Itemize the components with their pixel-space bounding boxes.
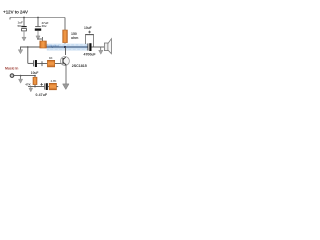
- ground speaker: [99, 50, 103, 54]
- ground chain: [29, 88, 33, 92]
- capacitor C5 plus mark: [88, 31, 91, 34]
- ground emitter: [63, 84, 69, 90]
- capacitor C4 thick plate: [46, 83, 48, 90]
- label R5 value: [51, 79, 57, 83]
- svg-text:150: 150: [71, 32, 77, 36]
- selection highlight collector wire: [47, 44, 88, 51]
- capacitor C1 bottom lead: [23, 31, 25, 38]
- resistor R5 right pin: [57, 86, 59, 88]
- svg-text:10uF: 10uF: [84, 26, 92, 30]
- node junction R4 bottom: [34, 86, 36, 88]
- wire rail start tick: [9, 18, 11, 20]
- resistor R3 body: [47, 60, 54, 67]
- selection pattern dashes: [48, 44, 88, 46]
- svg-text:Music In: Music In: [5, 66, 18, 70]
- label C5 value: [84, 52, 97, 56]
- capacitor C1 hollow plate: [22, 29, 27, 31]
- transistor Q1 emitter diag: [63, 62, 66, 65]
- svg-text:4.7K: 4.7K: [51, 79, 57, 83]
- resistor R4 body: [33, 77, 37, 84]
- capacitor C5 thick plate: [89, 43, 91, 51]
- svg-text:10uF: 10uF: [31, 71, 39, 75]
- node junction rail-C2: [37, 17, 39, 19]
- resistor R4 top lead: [34, 76, 36, 78]
- svg-text:40v: 40v: [42, 24, 47, 28]
- resistor R2 top stub: [42, 37, 44, 41]
- svg-text:50v: 50v: [18, 24, 23, 28]
- wire power rail: [10, 17, 65, 19]
- wire base row: [37, 62, 61, 64]
- svg-text:ohm: ohm: [71, 36, 78, 40]
- label C1 value: [18, 21, 24, 28]
- transistor Q1 collector diag: [63, 57, 66, 59]
- node plus tick base row: [41, 61, 43, 66]
- capacitor C4 thin plate: [44, 83, 46, 89]
- capacitor C3 thick plate: [35, 60, 37, 67]
- ground left wire: [18, 50, 23, 54]
- wire input row: [14, 75, 35, 77]
- capacitor C2 thick plate: [35, 28, 41, 30]
- svg-text:1K: 1K: [49, 56, 53, 60]
- node junction rail-C1: [23, 17, 25, 19]
- wire cap to speaker: [92, 46, 105, 48]
- label R3 value: [49, 56, 53, 60]
- wire collector node: [47, 46, 88, 48]
- capacitor C3 thin plate: [33, 60, 35, 66]
- resistor R1 body: [63, 30, 68, 43]
- capacitor C4 plus mark: [40, 83, 43, 86]
- capacitor C2 lead: [37, 18, 39, 27]
- capacitor C2 top plate: [35, 26, 41, 28]
- ground C1: [22, 37, 26, 41]
- resistor R1 bottom lead: [64, 43, 66, 47]
- transistor Q1 circle: [60, 57, 69, 66]
- selection artifact marks: [47, 44, 60, 48]
- capacitor C5 thin plate: [87, 43, 89, 50]
- node junction input riser: [27, 46, 29, 48]
- label C4 value: [36, 93, 48, 97]
- svg-text:+12V to 24V: +12V to 24V: [3, 9, 29, 14]
- capacitor C2 bottom lead: [37, 31, 39, 36]
- label C5 top: [84, 26, 92, 30]
- transistor Q1 collector lead: [65, 47, 67, 55]
- wire input riser: [27, 47, 29, 63]
- capacitor C3 left lead: [28, 62, 33, 64]
- resistor R1 top lead: [64, 18, 66, 31]
- ground input stub: [20, 76, 22, 80]
- label Q1: [72, 64, 87, 68]
- capacitor C5 hollow box: [85, 35, 94, 47]
- label C3 value: [31, 71, 39, 75]
- label Music In: [5, 66, 18, 70]
- resistor R2 body: [40, 41, 47, 48]
- svg-text:10K: 10K: [37, 37, 42, 41]
- svg-text:2SC1815: 2SC1815: [72, 64, 87, 68]
- svg-text:4700uF: 4700uF: [84, 52, 97, 56]
- capacitor C1 lead: [23, 18, 25, 27]
- svg-text:47K: 47K: [25, 82, 31, 86]
- power net label +12V to 24V: [3, 9, 29, 14]
- node junction input ground: [20, 75, 22, 77]
- label R1 value: [71, 32, 78, 40]
- terminal Music In: [10, 74, 14, 78]
- label R2 value: [37, 37, 42, 41]
- ground C2: [36, 36, 40, 40]
- transistor Q1 base bar: [62, 58, 64, 64]
- capacitor C4 right lead: [48, 86, 49, 88]
- resistor R4 bottom lead: [34, 85, 36, 87]
- ground speaker stub: [100, 47, 102, 50]
- label C2 value: [42, 21, 49, 28]
- resistor R5 body: [49, 83, 56, 90]
- wire ground spur left: [21, 47, 41, 50]
- label R4 value: [25, 82, 31, 86]
- transistor Q1 emitter lead: [65, 65, 67, 84]
- node junction collector: [64, 46, 66, 48]
- speaker LS1 body: [104, 43, 108, 51]
- ground input: [19, 79, 23, 83]
- speaker LS1 cone: [108, 39, 112, 54]
- wire chain row: [28, 86, 44, 88]
- svg-text:0.47uF: 0.47uF: [36, 93, 48, 97]
- ground chain stub: [30, 87, 32, 89]
- node junction R4 tap: [34, 75, 36, 77]
- transistor Q1 emitter arrowhead: [65, 64, 67, 66]
- capacitor C1 top plate: [21, 26, 26, 28]
